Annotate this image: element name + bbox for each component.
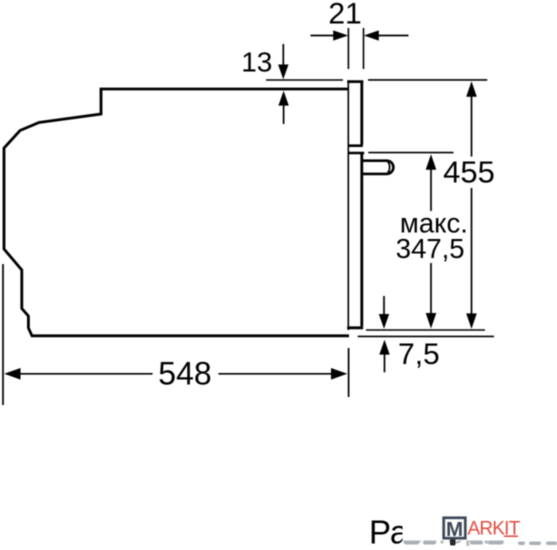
arrowhead 548 right [331,368,347,380]
extension line 548 right [348,348,350,397]
dim 7.5 lower arrow stem [384,354,386,372]
svg-text:347,5: 347,5 [396,233,465,264]
dim 7.5 upper arrow stem [383,296,385,315]
svg-text:455: 455 [443,155,495,190]
arrowhead 7.5 down [379,314,389,329]
arrowhead 347.5 up [426,154,437,170]
extension line 21 right [363,28,365,69]
arrowhead 21 right [364,30,379,40]
dim 13 up arrow stem [283,105,285,124]
dim 21 left arrow line [311,35,335,37]
extension line 455 top [368,79,487,81]
door bottom edge [347,326,363,329]
dim 455 line upper segment [471,96,473,157]
door upper edge [348,152,364,155]
handle end cap line [388,162,390,173]
svg-text:13: 13 [241,46,272,77]
dim 455 line lower segment [471,188,473,315]
svg-text:7,5: 7,5 [398,338,440,371]
arrowhead 13 down [278,65,288,80]
arrowhead 455 up [466,81,477,97]
arrowhead 548 left [4,368,20,380]
svg-text:M: M [446,518,463,541]
arrowhead 13 up [278,91,288,106]
arrowhead 455 down [466,313,477,329]
watermark faint remains [404,541,557,546]
dim 347.5 stem upper [430,169,432,212]
door handle [363,161,394,174]
extension line body bottom level [358,335,494,337]
control panel front edge [360,82,363,145]
dim 548 line right segment [218,373,332,375]
dim 21 right arrow line [379,35,409,37]
extension line door bottom level [366,329,485,331]
watermark covered text [369,496,557,550]
dim 347.5 stem lower [430,263,432,315]
markit logo ARKIT [468,519,521,540]
door front edge [360,153,363,326]
arrowhead 347.5 down [426,313,437,329]
arrowhead 7.5 up [379,340,389,355]
extension line 21 left [347,28,349,69]
markit IT underline [504,535,518,537]
arrowhead 21 left [333,30,348,40]
extension line maks 347.5 top [368,152,453,154]
control panel bottom edge [348,144,363,147]
oven body outline [4,89,349,336]
extension line 548 left [2,264,4,405]
door back line [347,80,349,330]
extension line door-top level (13) [266,79,343,81]
dim 548 line left segment [6,373,153,375]
watermark descender tail [450,539,456,546]
dim 13 down arrow stem [282,44,284,65]
svg-text:21: 21 [328,0,361,30]
svg-text:548: 548 [158,356,211,392]
markit logo square [444,518,466,541]
door top edge [347,80,363,83]
